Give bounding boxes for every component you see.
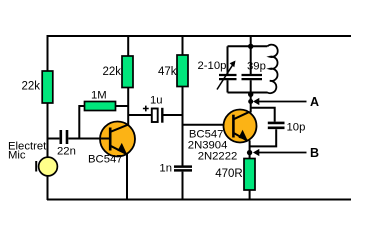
transistor Q1 BC547 bbox=[88, 122, 135, 166]
resistor R3 22k bbox=[102, 36, 133, 125]
capacitor VC1 2-10p trimmer bbox=[198, 46, 237, 92]
svg-text:47k: 47k bbox=[158, 66, 177, 78]
svg-text:1n: 1n bbox=[159, 163, 172, 175]
node tank top junction bbox=[248, 44, 253, 49]
wire Q2 base bbox=[183, 124, 234, 126]
wire Q2 emitter down bbox=[249, 140, 251, 158]
svg-text:2-10p: 2-10p bbox=[198, 60, 227, 72]
node B tap bbox=[247, 150, 252, 155]
wire antenna tap A with arrow bbox=[253, 95, 319, 109]
capacitor C1 22n bbox=[48, 130, 110, 158]
svg-text:2N3904: 2N3904 bbox=[188, 139, 228, 151]
svg-text:22k: 22k bbox=[21, 81, 40, 93]
wire bottom 0V rail bbox=[47, 199, 351, 201]
wire Q1 emitter to bottom rail bbox=[126, 154, 128, 201]
svg-text:BC547: BC547 bbox=[88, 154, 123, 166]
svg-text:470R: 470R bbox=[215, 168, 243, 180]
resistor R5 470R bbox=[215, 159, 255, 201]
wire supply feed to tank bbox=[250, 36, 252, 46]
wire tank bottom to Q2 collector bbox=[250, 93, 252, 113]
electret mic bbox=[8, 141, 57, 176]
svg-text:2N2222: 2N2222 bbox=[198, 151, 238, 163]
svg-text:10p: 10p bbox=[287, 122, 306, 134]
resistor R4 47k bbox=[158, 36, 188, 166]
resistor R2 1M bbox=[79, 90, 129, 139]
wire tank top bbox=[228, 45, 268, 47]
svg-text:1M: 1M bbox=[91, 90, 107, 102]
wire top supply rail bbox=[47, 35, 351, 37]
svg-text:22k: 22k bbox=[102, 66, 121, 78]
wire mic to bottom rail bbox=[47, 176, 49, 201]
svg-text:39p: 39p bbox=[247, 61, 266, 73]
wire left column mid (22k to mic) bbox=[47, 103, 49, 158]
capacitor C4 39p bbox=[242, 46, 266, 92]
svg-text:A: A bbox=[310, 95, 319, 109]
svg-text:22n: 22n bbox=[57, 146, 76, 158]
wire antenna tap B with arrow bbox=[253, 146, 319, 160]
transistor Q2 BC547/2N3904/2N2222 bbox=[188, 110, 257, 163]
inductor L1 coil bbox=[267, 45, 277, 94]
svg-text:B: B bbox=[310, 146, 319, 160]
wire tank bottom bbox=[228, 92, 268, 94]
node A tap bbox=[248, 99, 253, 104]
capacitor C3 1n bbox=[159, 163, 192, 200]
svg-text:Mic: Mic bbox=[8, 150, 26, 162]
resistor R1 22k bbox=[21, 71, 52, 103]
wire left column top (rail to 22k) bbox=[47, 35, 49, 71]
svg-text:1u: 1u bbox=[150, 95, 163, 107]
capacitor C5 10p bbox=[250, 108, 306, 147]
node tank bottom junction bbox=[248, 92, 253, 97]
capacitor C2 1u electrolytic bbox=[128, 95, 182, 123]
